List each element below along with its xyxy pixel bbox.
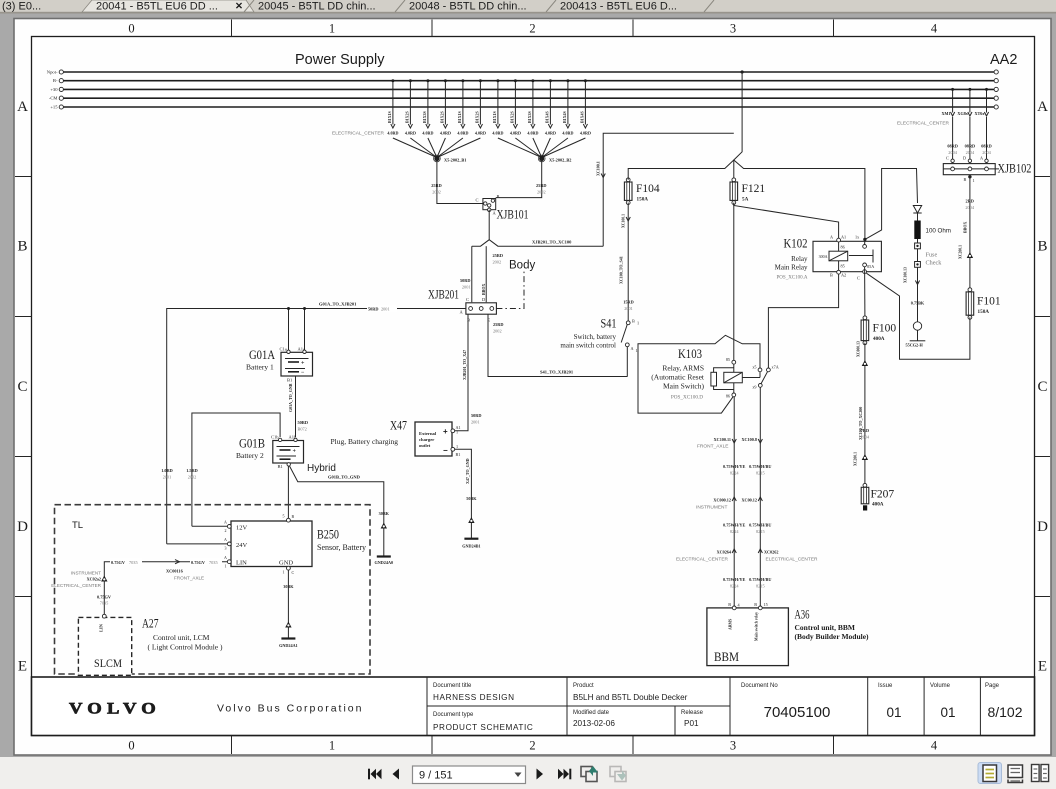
svg-text:G01A_TO_GNB: G01A_TO_GNB [288, 383, 293, 412]
svg-text:Document type: Document type [433, 712, 474, 718]
svg-text:(Body Builder Module): (Body Builder Module) [795, 632, 870, 641]
svg-text:F101: F101 [977, 296, 1001, 308]
bus line -CM [63, 97, 995, 99]
test lamp [913, 322, 921, 330]
wire drop 12 (B1X4S 4.0RD) [584, 81, 586, 125]
svg-text:XC00.12: XC00.12 [742, 498, 757, 503]
svg-text:XC100.13: XC100.13 [904, 267, 908, 283]
svg-text:4.0RD: 4.0RD [405, 131, 416, 136]
wire F100 down to F207 [864, 343, 866, 484]
svg-text:B1X4S: B1X4S [562, 110, 567, 123]
svg-text:1.0RD: 1.0RD [161, 468, 173, 473]
svg-text:50RD: 50RD [460, 278, 471, 283]
svg-text:Page: Page [985, 683, 1000, 689]
svg-text:+15: +15 [50, 105, 58, 110]
svg-text:01: 01 [886, 705, 901, 720]
svg-text:−: − [301, 370, 305, 376]
svg-text:2001: 2001 [163, 475, 172, 480]
wire F121 to K102.A1 [734, 203, 839, 240]
svg-text:B1: B1 [456, 452, 461, 457]
svg-text:0: 0 [128, 739, 134, 753]
wire F101 bottom loop to K102.C [866, 273, 970, 359]
svg-text:4.0RD: 4.0RD [475, 131, 486, 136]
svg-text:B: B [467, 318, 470, 323]
svg-text:C1a: C1a [280, 347, 287, 352]
svg-text:B-: B- [53, 78, 58, 83]
svg-text:ELECTRICAL_CENTER: ELECTRICAL_CENTER [897, 121, 950, 127]
wire XT6x to XJB102 (08RD 2004) [986, 89, 988, 112]
svg-text:−: − [443, 446, 448, 455]
svg-text:2004: 2004 [982, 150, 991, 155]
svg-text:4.0RD: 4.0RD [492, 131, 503, 136]
continuous layout icon [1008, 765, 1023, 783]
wire K102.A2 to K103.x7A [768, 274, 838, 368]
wire K103.86 down to BBM pin 4 [733, 397, 735, 606]
svg-text:XC0264: XC0264 [717, 550, 732, 555]
svg-text:F104: F104 [636, 183, 660, 195]
svg-text:B: B [17, 239, 27, 255]
svg-text:Main Relay: Main Relay [775, 264, 808, 272]
svg-text:G01B_TO_GND: G01B_TO_GND [328, 475, 361, 480]
svg-text:B1X4S: B1X4S [545, 110, 550, 123]
svg-text:B1X4S: B1X4S [580, 110, 585, 123]
ground 55CG2-H [910, 340, 926, 342]
svg-text:BBOX: BBOX [963, 222, 968, 233]
wire drop 4 (B1X2S 4.0RD) [444, 81, 446, 125]
svg-text:01: 01 [940, 705, 955, 720]
svg-text:X5-2002_B1: X5-2002_B1 [444, 158, 466, 163]
fuse F101 [969, 289, 971, 318]
coil + contact [733, 364, 735, 372]
svg-text:50BK: 50BK [466, 496, 477, 501]
svg-text:15RD: 15RD [623, 300, 634, 305]
wires down to XJB201 pins C and D [471, 246, 473, 302]
svg-text:3: 3 [730, 739, 736, 753]
svg-text:B1X3S: B1X3S [527, 110, 532, 123]
svg-text:K102: K102 [784, 237, 808, 251]
fuse F100 [864, 317, 866, 344]
svg-text:Power Supply: Power Supply [295, 52, 385, 68]
svg-text:x5: x5 [752, 365, 756, 370]
svg-text:30BK: 30BK [283, 584, 294, 589]
svg-text:✕: ✕ [235, 1, 243, 12]
junction block XJB101 [476, 194, 529, 222]
svg-text:4.0RD: 4.0RD [440, 131, 451, 136]
svg-text:2: 2 [529, 739, 535, 753]
svg-text:G01A_TO_XJB201: G01A_TO_XJB201 [319, 302, 357, 307]
svg-text:XC200.1: XC200.1 [854, 452, 858, 466]
svg-text:Main Switch): Main Switch) [663, 382, 705, 391]
XC100.1 riser [603, 133, 734, 246]
svg-text:0.75WH/YE: 0.75WH/YE [723, 523, 745, 528]
wire drop 10 (B1X4S 4.0RD) [549, 81, 551, 125]
wire XG8x to XJB102 (08RD 2004) [969, 89, 971, 112]
wire B250.GND to ground GND24A1 [287, 570, 289, 638]
svg-text:XJB201_TO_XC100: XJB201_TO_XC100 [532, 240, 572, 245]
junction at K102 pin 1x [863, 238, 866, 241]
svg-text:2001: 2001 [471, 420, 480, 425]
wire K103.x9 down to BBM pin 15 [759, 387, 761, 606]
svg-text:4: 4 [931, 22, 938, 36]
svg-text:C: C [466, 297, 469, 302]
svg-text:Volvo Bus Corporation: Volvo Bus Corporation [217, 703, 363, 715]
svg-text:20045 - B5TL DD chin...: 20045 - B5TL DD chin... [258, 1, 376, 13]
svg-text:150A: 150A [978, 309, 990, 315]
svg-text:2002: 2002 [493, 260, 502, 265]
svg-text:GND: GND [279, 560, 293, 567]
svg-text:XG8x: XG8x [957, 111, 968, 116]
svg-text:8215: 8215 [756, 584, 765, 589]
connector arrows & wire labels [732, 439, 736, 443]
wire F104 bottom to S41 [627, 203, 629, 321]
wire XJB101 to XJB201_TO_XC100 rail (chevron) [472, 210, 489, 246]
coil [838, 242, 840, 251]
svg-text:B: B [292, 514, 295, 519]
svg-text:A: A [224, 537, 227, 542]
row ticks left/right band [15, 176, 32, 178]
svg-text:A: A [631, 346, 634, 351]
svg-text:8224: 8224 [730, 584, 739, 589]
svg-text:B250: B250 [317, 528, 339, 542]
svg-text:D: D [1037, 519, 1048, 535]
svg-text:1: 1 [973, 178, 975, 183]
svg-text:ARMS: ARMS [729, 619, 733, 630]
tab bar background [0, 0, 1056, 14]
svg-text:25RD: 25RD [536, 183, 547, 188]
svg-text:9 / 151: 9 / 151 [419, 770, 453, 782]
svg-text:XJB201: XJB201 [428, 288, 459, 302]
control unit A27 SLCM dashed [78, 614, 223, 675]
svg-text:A1a: A1a [298, 347, 306, 352]
wire XM1 to XJB102 (08RD 2004) [952, 89, 954, 112]
svg-text:400A: 400A [872, 502, 884, 508]
svg-text:200413 - B5TL EU6 D...: 200413 - B5TL EU6 D... [560, 1, 677, 13]
svg-text:8215: 8215 [756, 529, 765, 534]
resistor 100 Ohm [914, 221, 920, 240]
svg-text:1: 1 [225, 564, 227, 569]
svg-text:2002: 2002 [493, 329, 502, 334]
svg-text:0.75WH/YE: 0.75WH/YE [723, 464, 745, 469]
svg-text:Relay, ARMS: Relay, ARMS [662, 364, 704, 373]
svg-text:Document No: Document No [741, 683, 778, 689]
page number combo [413, 766, 526, 784]
svg-text:charger: charger [419, 437, 434, 442]
svg-text:LIN: LIN [99, 623, 104, 632]
svg-text:3: 3 [225, 546, 227, 551]
svg-text:15: 15 [764, 602, 768, 607]
svg-text:B: B [497, 194, 500, 199]
svg-text:(Automatic Reset: (Automatic Reset [651, 373, 705, 382]
svg-text:Release: Release [681, 710, 704, 716]
svg-text:300A: 300A [819, 254, 828, 259]
svg-text:POS_XC100.A: POS_XC100.A [777, 276, 808, 281]
switch S41 [560, 317, 639, 354]
svg-text:E: E [18, 659, 27, 675]
svg-text:A: A [224, 555, 227, 560]
svg-text:D: D [17, 519, 28, 535]
wire drop 8 (B1X2S 4.0RD) [514, 81, 516, 125]
svg-text:ELECTRICAL_CENTER: ELECTRICAL_CENTER [51, 583, 101, 588]
svg-text:2002: 2002 [432, 190, 441, 195]
svg-text:5: 5 [283, 514, 285, 519]
100 Ohm fuse-check chain [865, 169, 918, 240]
svg-text:FRONT_AXLE: FRONT_AXLE [174, 576, 204, 581]
wire F104 top to junction point [628, 160, 734, 180]
svg-text:A: A [830, 235, 833, 240]
svg-text:XC100.11: XC100.11 [714, 437, 731, 442]
wire X47 minus to ground GND24B1 [455, 449, 472, 538]
svg-text:XC000.12: XC000.12 [713, 498, 731, 503]
wire XJB201.B down to X47 [455, 314, 468, 431]
svg-text:x9: x9 [752, 385, 756, 390]
svg-text:BBOX: BBOX [481, 284, 486, 295]
svg-text:2001: 2001 [462, 285, 471, 290]
svg-text:A: A [224, 520, 227, 525]
svg-text:+: + [443, 427, 448, 436]
svg-text:Modified date: Modified date [573, 710, 610, 716]
svg-text:C: C [1037, 379, 1047, 395]
svg-text:7RD: 7RD [861, 428, 869, 433]
svg-text:4.0RD: 4.0RD [545, 131, 556, 136]
tabs [82, 0, 254, 12]
junction X5-2002_B1 [434, 156, 439, 161]
svg-text:3: 3 [730, 22, 736, 36]
wire G01B.B1 down to B250.B [287, 463, 290, 466]
svg-text:0.75BK: 0.75BK [911, 301, 925, 306]
svg-text:A: A [1037, 99, 1048, 115]
K102 pin C circle [863, 270, 867, 274]
svg-text:2RD: 2RD [966, 199, 974, 204]
svg-text:B1X1S: B1X1S [492, 110, 497, 123]
svg-text:2004: 2004 [965, 205, 974, 210]
svg-text:Sensor, Battery: Sensor, Battery [317, 543, 366, 552]
wire G01B_TO_GND [290, 466, 384, 557]
svg-text:86: 86 [841, 245, 845, 250]
next view icon (disabled) [610, 767, 626, 782]
wire XJB201.E down and right to S41 [488, 314, 628, 376]
bus line B- [63, 80, 995, 82]
junction block XJB102 [943, 156, 1031, 176]
svg-text:2004: 2004 [861, 435, 870, 440]
svg-text:HARNESS DESIGN: HARNESS DESIGN [433, 693, 515, 702]
wire drop 5 (B1X1S 4.0RD) [462, 81, 464, 125]
svg-text:0.75GV: 0.75GV [97, 595, 112, 600]
svg-text:7035: 7035 [129, 560, 138, 565]
svg-text:08RD: 08RD [981, 144, 992, 149]
svg-text:0: 0 [128, 22, 134, 36]
svg-text:12V: 12V [236, 525, 248, 532]
svg-text:Battery 2: Battery 2 [236, 451, 264, 460]
previous view icon [581, 766, 598, 782]
svg-text:Control unit, LCM: Control unit, LCM [153, 633, 210, 642]
svg-text:AA2: AA2 [990, 52, 1017, 68]
svg-text:+30: +30 [50, 87, 58, 92]
ground GND24A0 [377, 555, 391, 557]
svg-text:XC100.1: XC100.1 [622, 214, 626, 228]
svg-text:F100: F100 [873, 322, 897, 334]
bottom toolbar background [0, 757, 1056, 789]
toolbar prev button [393, 769, 400, 780]
svg-text:1: 1 [456, 444, 458, 449]
bus line +30 [63, 88, 995, 90]
svg-text:A: A [980, 156, 983, 161]
svg-text:Control unit, BBM: Control unit, BBM [795, 623, 856, 632]
svg-text:A: A [17, 99, 28, 115]
svg-text:XC100_TO_S41: XC100_TO_S41 [619, 256, 624, 284]
svg-text:G01A: G01A [249, 348, 275, 362]
svg-text:+: + [293, 449, 297, 455]
svg-text:B: B [728, 602, 731, 607]
svg-text:25RD: 25RD [493, 253, 504, 258]
wire drop 1 (B1X1S 4.0RD) [392, 81, 394, 125]
svg-text:GND24A1: GND24A1 [279, 643, 298, 648]
svg-text:K103: K103 [678, 347, 702, 361]
svg-text:8224: 8224 [730, 529, 739, 534]
svg-text:8/102: 8/102 [987, 704, 1022, 720]
svg-text:B: B [830, 273, 833, 278]
svg-text:2001: 2001 [624, 306, 633, 311]
svg-text:85: 85 [841, 264, 845, 269]
svg-text:XC200.1: XC200.1 [959, 245, 963, 259]
svg-text:B1X1S: B1X1S [387, 110, 392, 123]
svg-text:0.75WH/YE: 0.75WH/YE [723, 577, 745, 582]
svg-text:55CG2-H: 55CG2-H [906, 343, 924, 348]
svg-text:E: E [1038, 659, 1047, 675]
svg-text:4.0RD: 4.0RD [527, 131, 538, 136]
svg-text:2: 2 [225, 528, 227, 533]
battery G01B [236, 435, 304, 470]
svg-text:X5-2002_B2: X5-2002_B2 [549, 158, 571, 163]
svg-text:B1: B1 [287, 378, 292, 383]
svg-text:30BK: 30BK [379, 511, 390, 516]
svg-text:08RD: 08RD [965, 144, 976, 149]
svg-text:A1: A1 [841, 235, 846, 240]
svg-text:2: 2 [529, 22, 535, 36]
svg-text:B1X3S: B1X3S [422, 110, 427, 123]
svg-text:C: C [946, 156, 949, 161]
wire 12V feed [192, 525, 228, 527]
svg-text:0.75WH/BU: 0.75WH/BU [749, 577, 771, 582]
wire bus to F121 crossing [741, 70, 744, 73]
svg-text:A27: A27 [142, 617, 159, 631]
svg-text:100 Ohm: 100 Ohm [926, 228, 951, 235]
wire fan2 junction to XJB101 [496, 159, 542, 198]
svg-text:INSTRUMENT: INSTRUMENT [696, 505, 728, 511]
svg-text:Hybrid: Hybrid [307, 463, 336, 474]
svg-text:150A: 150A [637, 197, 649, 203]
svg-text:1: 1 [637, 321, 639, 326]
svg-text:400A: 400A [873, 336, 885, 342]
sensor B250 [224, 514, 366, 576]
svg-text:7035: 7035 [100, 601, 109, 606]
wire G01A_TO_XJB201 [167, 309, 466, 544]
svg-text:2004: 2004 [966, 150, 975, 155]
wire to G01B.C1b [192, 413, 280, 526]
svg-text:LIN: LIN [236, 560, 247, 567]
svg-text:A1b: A1b [289, 435, 297, 440]
svg-text:XT6x: XT6x [974, 111, 985, 116]
svg-text:BBM: BBM [714, 650, 739, 664]
svg-text:1: 1 [329, 739, 335, 753]
svg-text:-CM: -CM [49, 96, 58, 101]
wire XJB102.B down to F101 [968, 175, 971, 178]
svg-text:A36: A36 [795, 608, 810, 622]
svg-text:D: D [963, 156, 966, 161]
junction X5-2002_B2 [539, 156, 544, 161]
plug X47 battery charging [331, 419, 461, 458]
svg-text:B: B [754, 602, 757, 607]
svg-text:4.0RD: 4.0RD [510, 131, 521, 136]
fuse check indicator [917, 239, 919, 243]
svg-text:XM1: XM1 [942, 111, 951, 116]
svg-text:1: 1 [283, 570, 285, 575]
toolbar next button [537, 769, 544, 780]
wire K102.85A down to F100 [864, 267, 866, 316]
svg-text:Check: Check [926, 260, 943, 267]
svg-text:+: + [301, 361, 305, 367]
svg-text:20048 - B5TL DD chin...: 20048 - B5TL DD chin... [409, 1, 527, 13]
svg-text:50RD: 50RD [298, 420, 309, 425]
wire S41 to horizontal [626, 347, 628, 377]
svg-text:4.0RD: 4.0RD [580, 131, 591, 136]
svg-text:24V: 24V [236, 542, 248, 549]
fuse F207 [861, 487, 869, 504]
svg-text:x7A: x7A [772, 365, 779, 370]
svg-text:B1X2S: B1X2S [405, 110, 410, 123]
svg-text:0.75WH/BU: 0.75WH/BU [749, 523, 771, 528]
column ticks top/bottom band [231, 20, 233, 37]
svg-text:ELECTRICAL_CENTER: ELECTRICAL_CENTER [332, 131, 385, 137]
bus line Npot- [63, 71, 995, 73]
svg-text:25RD: 25RD [431, 183, 442, 188]
svg-text:B5LH and B5TL Double Decker: B5LH and B5TL Double Decker [573, 693, 688, 702]
svg-text:A2: A2 [841, 273, 846, 278]
svg-text:X47_TO_GND: X47_TO_GND [465, 458, 470, 484]
svg-text:B1: B1 [278, 464, 283, 469]
svg-text:S41: S41 [601, 317, 617, 331]
svg-text:50RD: 50RD [471, 413, 482, 418]
svg-text:B: B [964, 177, 967, 182]
svg-text:20041 - B5TL EU6 DD ...: 20041 - B5TL EU6 DD ... [96, 1, 218, 13]
svg-text:B072: B072 [298, 427, 307, 432]
svg-text:PRODUCT SCHEMATIC: PRODUCT SCHEMATIC [433, 723, 533, 732]
svg-text:XJB201_TO_X47: XJB201_TO_X47 [462, 350, 467, 380]
svg-text:1: 1 [636, 348, 638, 353]
svg-text:B1X1S: B1X1S [457, 110, 462, 123]
svg-text:2013-02-06: 2013-02-06 [573, 719, 615, 728]
wire drop 7 (B1X1S 4.0RD) [497, 81, 499, 125]
wire drop 3 (B1X3S 4.0RD) [427, 81, 429, 125]
svg-text:8224: 8224 [730, 471, 739, 476]
svg-text:Volume: Volume [930, 683, 951, 689]
svg-text:TL: TL [72, 520, 83, 531]
svg-text:ELECTRICAL_CENTER: ELECTRICAL_CENTER [766, 557, 819, 563]
svg-text:( Light Control Module ): ( Light Control Module ) [148, 643, 223, 652]
svg-text:X47: X47 [390, 419, 407, 433]
svg-text:B1X2S: B1X2S [440, 110, 445, 123]
svg-text:VOLVO: VOLVO [69, 701, 161, 718]
svg-text:Switch, battery: Switch, battery [574, 333, 617, 341]
svg-text:B1X2S: B1X2S [475, 110, 480, 123]
toolbar last-page button [558, 769, 571, 780]
Body demarcation dash-dot [496, 271, 524, 309]
svg-text:C: C [476, 198, 479, 203]
svg-text:Product: Product [573, 683, 594, 689]
svg-text:70405100: 70405100 [764, 704, 831, 721]
svg-text:GND24B1: GND24B1 [462, 544, 480, 549]
svg-text:C: C [292, 570, 295, 575]
single page layout icon (active) [978, 763, 1002, 784]
